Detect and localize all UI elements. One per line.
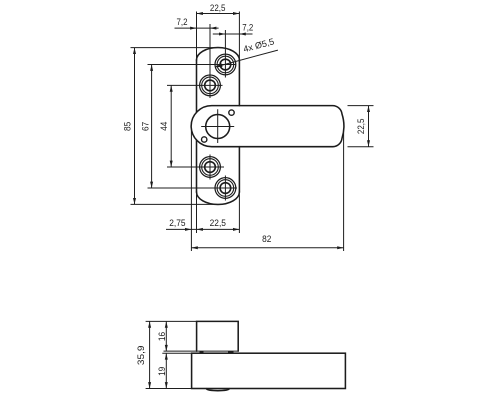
- svg-text:19: 19: [157, 367, 167, 376]
- screw hole A (top right): [215, 54, 236, 75]
- side view: pin boss arc: [206, 389, 229, 391]
- dimension 35,9: [136, 321, 196, 388]
- plate outline (plan view): [197, 48, 240, 205]
- small rivet circle upper-right: [229, 110, 234, 115]
- side view: rivet feet: [200, 351, 204, 353]
- left 7,2 dimension: [175, 17, 219, 98]
- svg-text:22,5: 22,5: [210, 3, 226, 13]
- svg-text:67: 67: [141, 122, 151, 131]
- svg-text:2,75: 2,75: [169, 218, 185, 228]
- leader 4x diameter 5,5: [215, 36, 278, 67]
- screw hole B (upper left): [200, 75, 221, 96]
- svg-text:22,5: 22,5: [356, 118, 366, 134]
- side view: thin flange line: [164, 350, 239, 352]
- top dimension 22,5: [197, 3, 240, 62]
- small rivet circle lower-left: [202, 137, 207, 142]
- dimension 85: [123, 48, 223, 205]
- hinge pin centerlines: [201, 109, 234, 143]
- side view: plate box: [197, 321, 239, 351]
- svg-text:7,2: 7,2: [177, 17, 188, 27]
- arm outline (plan view): [191, 106, 344, 147]
- hinge pin circle: [206, 115, 230, 139]
- svg-text:16: 16: [157, 332, 167, 341]
- screw hole C (lower left): [200, 155, 221, 180]
- svg-text:7,2: 7,2: [242, 23, 253, 33]
- screw hole D (bottom right): [215, 176, 236, 201]
- right 7,2 dimension: [213, 23, 254, 78]
- dimension 82: [191, 133, 343, 251]
- svg-text:85: 85: [123, 122, 133, 131]
- bottom dimensions 2,75 and 22,5: [166, 131, 239, 251]
- arm width dimension 22,5: [348, 106, 374, 147]
- dimension 67: [141, 65, 238, 189]
- svg-text:35,9: 35,9: [136, 346, 146, 366]
- svg-text:22,5: 22,5: [210, 218, 226, 228]
- side view: arm bar: [192, 353, 346, 388]
- svg-text:44: 44: [159, 122, 169, 131]
- dimension 44: [159, 85, 224, 167]
- dimension 16: [157, 321, 168, 351]
- svg-text:82: 82: [262, 234, 271, 244]
- dimension 19: [157, 353, 192, 388]
